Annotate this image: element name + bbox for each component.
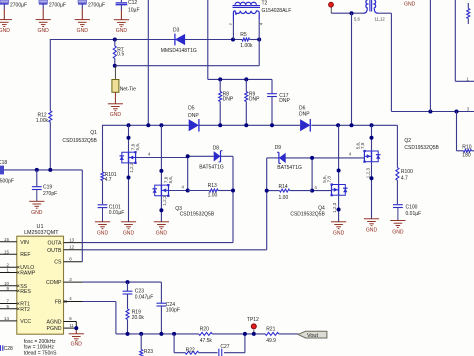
wire Q2 drain lead bbox=[371, 125, 373, 150]
label C18 bbox=[0, 160, 7, 166]
diode D9 bbox=[277, 152, 286, 163]
label fosc bbox=[24, 339, 56, 345]
ground under C12 bbox=[114, 20, 129, 34]
svg-text:GND: GND bbox=[156, 231, 168, 237]
junction gate tie bottom bbox=[186, 189, 190, 193]
svg-text:5,6: 5,6 bbox=[354, 16, 360, 21]
junction rail R8 bbox=[218, 123, 222, 127]
capacitor C101 bbox=[98, 205, 108, 222]
svg-text:1,2,3: 1,2,3 bbox=[129, 162, 134, 173]
capacitor bulk 2700uF #3 bbox=[78, 0, 87, 20]
wire OUTA bbox=[64, 242, 234, 244]
pin name UVLO bbox=[20, 265, 34, 271]
pin number 6 bbox=[69, 316, 72, 321]
svg-text:11,12: 11,12 bbox=[375, 17, 386, 22]
wire AGND PGND bbox=[64, 322, 77, 334]
capacitor C19 bbox=[32, 170, 42, 201]
wire FB bus bbox=[116, 333, 298, 335]
svg-text:GND: GND bbox=[38, 28, 50, 34]
wire OUTB bbox=[64, 249, 267, 251]
svg-text:Q2: Q2 bbox=[404, 138, 411, 144]
svg-text:16: 16 bbox=[4, 237, 9, 242]
ground under C101 bbox=[95, 222, 110, 237]
svg-text:R100: R100 bbox=[401, 169, 413, 175]
wire Q4 gate bbox=[312, 190, 331, 192]
pin name RT1 bbox=[20, 302, 30, 308]
svg-text:2700µF: 2700µF bbox=[88, 2, 105, 8]
svg-text:BAT54T1G: BAT54T1G bbox=[199, 164, 224, 170]
label D3 bbox=[173, 28, 180, 34]
svg-text:7,8: 7,8 bbox=[326, 176, 331, 183]
pin labels Q3 1,2,3 bbox=[162, 195, 167, 206]
wire drain rail bbox=[103, 125, 398, 172]
label R7 0.5 bbox=[117, 47, 124, 58]
junction R9 top bbox=[244, 77, 248, 81]
junction Q2 source pin bbox=[370, 176, 374, 180]
label R13 1.00 bbox=[208, 183, 218, 198]
pin name SS bbox=[20, 284, 27, 290]
transistor Q1 bbox=[120, 151, 137, 164]
svg-text:1.00: 1.00 bbox=[279, 195, 289, 201]
resistor top right edge (cut) bbox=[467, 3, 470, 24]
junction gate tie2 top bbox=[310, 156, 314, 160]
label C17 DNP bbox=[279, 93, 290, 104]
svg-text:G154028ALF: G154028ALF bbox=[262, 8, 292, 14]
wire Q3 source lead bbox=[160, 196, 162, 222]
svg-text:49.9: 49.9 bbox=[266, 338, 276, 344]
transformer T1 (top right, cut) bbox=[364, 0, 378, 13]
label R12 1.00k bbox=[36, 113, 49, 124]
svg-text:VIN: VIN bbox=[20, 240, 29, 246]
svg-text:DNP: DNP bbox=[249, 96, 260, 102]
test point TP (top) bbox=[329, 2, 334, 13]
svg-text:DNP: DNP bbox=[188, 113, 199, 119]
pin number 8 bbox=[69, 256, 72, 261]
transistor Q2 bbox=[363, 150, 380, 163]
svg-text:0.01µF: 0.01µF bbox=[406, 211, 422, 217]
resistor R19 bbox=[126, 309, 129, 334]
pin labels Q1 1,2,3 bbox=[129, 162, 134, 173]
ground under Q3 bbox=[154, 222, 169, 237]
wire Q1 source lead bbox=[128, 163, 130, 221]
svg-text:D5: D5 bbox=[188, 105, 195, 111]
label G154028ALF bbox=[262, 8, 292, 14]
label C101 0.01uF bbox=[109, 205, 125, 217]
wire vertical x148 bbox=[147, 0, 149, 125]
junction rail Q3 drain bbox=[159, 123, 163, 127]
svg-text:47.5k: 47.5k bbox=[200, 338, 213, 344]
wire 11,12 lead down bbox=[391, 13, 474, 111]
pin 2 UVLO bbox=[0, 262, 19, 268]
pin 2 label T2 bbox=[229, 23, 233, 25]
wire Q1 gate bbox=[136, 157, 188, 159]
junction rail center tap bbox=[350, 123, 354, 127]
wire Q3 gate bbox=[169, 190, 188, 192]
svg-text:Net-Tie: Net-Tie bbox=[120, 87, 136, 93]
capacitor C28 (cut) bbox=[0, 345, 2, 351]
pin name CS bbox=[54, 260, 62, 266]
junction center tap bbox=[350, 11, 354, 15]
svg-text:C28: C28 bbox=[4, 346, 13, 352]
svg-text:20.0k: 20.0k bbox=[132, 315, 145, 321]
pin 10 SS bbox=[0, 281, 19, 287]
pin name PGND bbox=[47, 326, 62, 332]
pin 4 label Q1 bbox=[148, 152, 151, 157]
svg-text:MMSD4148T1G: MMSD4148T1G bbox=[161, 48, 197, 54]
pin 4 label Q2 bbox=[349, 151, 352, 156]
net-tie NT1 bbox=[112, 66, 119, 104]
resistor R23 bbox=[140, 334, 143, 356]
ground under net-tie bbox=[108, 104, 123, 118]
capacitor C100 bbox=[393, 205, 403, 221]
resistor R12 bbox=[49, 111, 52, 170]
svg-text:0.047µF: 0.047µF bbox=[135, 294, 153, 300]
svg-text:D6: D6 bbox=[299, 105, 306, 111]
svg-text:DNP: DNP bbox=[299, 112, 310, 118]
resistor R13 bbox=[188, 189, 233, 192]
svg-text:1.00: 1.00 bbox=[208, 193, 218, 199]
svg-text:VCC: VCC bbox=[20, 319, 31, 325]
svg-text:REF: REF bbox=[20, 252, 30, 258]
svg-text:GND: GND bbox=[31, 210, 43, 216]
label U1 bbox=[37, 224, 44, 230]
diode D5 DNP bbox=[189, 119, 199, 132]
svg-text:100pF: 100pF bbox=[166, 308, 180, 314]
pin 5 RT2 bbox=[0, 304, 19, 310]
svg-text:5,6,: 5,6, bbox=[356, 142, 361, 150]
label R101 4.7 bbox=[105, 172, 117, 183]
svg-text:R5: R5 bbox=[240, 32, 247, 38]
label LM25037QMT bbox=[24, 230, 59, 236]
pin name COMP bbox=[46, 280, 62, 286]
svg-text:CSD19532Q5B: CSD19532Q5B bbox=[290, 211, 325, 217]
pin name RES bbox=[20, 289, 31, 295]
label R20 47.5k bbox=[200, 327, 213, 345]
junction at Net-Tie node bbox=[113, 64, 117, 68]
svg-text:Vout: Vout bbox=[307, 333, 318, 339]
label R14 1.00 bbox=[279, 184, 289, 201]
label C27 bbox=[220, 344, 229, 350]
label Q4 bbox=[318, 205, 325, 211]
svg-text:2: 2 bbox=[229, 23, 233, 25]
diode D3 bbox=[175, 34, 185, 46]
wire Q1 drain lead bbox=[128, 125, 130, 151]
label MMSD4148T1G bbox=[161, 48, 197, 54]
wire vertical x430 bbox=[429, 0, 431, 112]
label D6 bbox=[299, 105, 310, 117]
wire R12 top vertical bbox=[49, 39, 51, 111]
svg-text:2700µF: 2700µF bbox=[49, 2, 66, 8]
svg-text:1,2,3: 1,2,3 bbox=[162, 195, 167, 206]
svg-text:CS: CS bbox=[54, 260, 62, 266]
label C100 0.01uF bbox=[406, 205, 422, 218]
svg-text:OUTA: OUTA bbox=[47, 241, 62, 247]
junction rail Q4 drain bbox=[336, 123, 340, 127]
label R100 4.7 bbox=[401, 169, 413, 182]
label Q2 bbox=[404, 138, 411, 144]
junction sec wire b bbox=[455, 110, 459, 114]
svg-text:RAMP: RAMP bbox=[20, 271, 36, 277]
svg-text:GND: GND bbox=[333, 231, 345, 237]
pin name VCC bbox=[20, 319, 31, 325]
wire CS pin stub bbox=[64, 261, 83, 263]
capacitor C17 DNP bbox=[267, 79, 277, 125]
net label Vout bbox=[298, 331, 327, 339]
svg-text:GND: GND bbox=[392, 229, 404, 235]
svg-text:C19: C19 bbox=[43, 185, 52, 191]
wire COMP to C24 bbox=[160, 282, 162, 302]
label C24 100pF bbox=[166, 302, 180, 313]
transformer T2 bbox=[233, 2, 261, 65]
label R8 DNP bbox=[223, 91, 234, 102]
label Q3 CSD19532Q5B bbox=[180, 211, 215, 217]
label D8 bbox=[213, 145, 220, 151]
svg-text:GND: GND bbox=[77, 28, 89, 34]
svg-text:tdead = 750nS: tdead = 750nS bbox=[24, 351, 57, 356]
junction at R7 top bbox=[113, 38, 117, 42]
svg-text:C100: C100 bbox=[406, 205, 418, 211]
wire FB bbox=[64, 300, 116, 334]
wire R22 C27 branch bbox=[174, 334, 245, 353]
junction OUTA riser R13 bbox=[231, 189, 235, 193]
label R9 DNP bbox=[249, 91, 260, 102]
svg-text:R13: R13 bbox=[208, 183, 217, 189]
capacitor C24 bbox=[157, 302, 167, 334]
label R23 bbox=[144, 349, 153, 355]
svg-text:TP12: TP12 bbox=[247, 317, 259, 323]
label C28 bbox=[4, 346, 13, 352]
junction COMP C23 bbox=[126, 280, 130, 284]
label D5 bbox=[188, 105, 199, 119]
label TP12 bbox=[247, 317, 259, 323]
junction gate tie top bbox=[186, 154, 190, 158]
ground under U1 bbox=[69, 334, 84, 348]
svg-text:GND: GND bbox=[71, 341, 83, 347]
svg-text:D8: D8 bbox=[213, 145, 220, 151]
svg-text:10µF: 10µF bbox=[128, 8, 140, 14]
svg-text:R21: R21 bbox=[266, 327, 275, 333]
diode D6 DNP bbox=[300, 119, 310, 132]
svg-text:5,6,: 5,6, bbox=[322, 175, 327, 183]
label R5 1.00k bbox=[240, 32, 253, 49]
junction gate tie2 bottom bbox=[310, 189, 314, 193]
resistor R100 bbox=[396, 125, 399, 204]
ground under Q4 bbox=[331, 222, 346, 237]
capacitor bulk 2700uF #2 bbox=[39, 0, 48, 20]
wire Q4 source lead bbox=[338, 196, 340, 222]
pin 4 label T2 bbox=[259, 22, 264, 25]
ground under Q1 bbox=[121, 222, 136, 237]
resistor R8 DNP bbox=[219, 79, 222, 125]
wire Q1Q3 gate tie bbox=[187, 156, 189, 190]
wire CS node bbox=[37, 169, 83, 171]
pin name REF bbox=[20, 252, 30, 258]
svg-text:1,2,3: 1,2,3 bbox=[332, 202, 337, 213]
svg-text:BAT54T1G: BAT54T1G bbox=[277, 165, 302, 171]
svg-text:C27: C27 bbox=[220, 344, 229, 350]
svg-text:180: 180 bbox=[462, 153, 471, 159]
capacitor C27 bbox=[219, 349, 222, 356]
label C23 0.047uF bbox=[135, 288, 153, 300]
pin number 3 bbox=[69, 277, 72, 282]
label C12 10uF bbox=[128, 0, 140, 14]
junction T2 right lead bbox=[257, 38, 261, 42]
label Q1 CSD19532Q5B bbox=[62, 138, 97, 144]
resistor R7 bbox=[113, 40, 116, 66]
junction R8 top bbox=[218, 77, 222, 81]
junction R12 bottom bbox=[48, 168, 52, 172]
capacitor C23 bbox=[123, 282, 133, 309]
ground under C100 bbox=[390, 221, 405, 236]
label C19 270pF bbox=[43, 185, 57, 198]
pin name RT2 bbox=[20, 307, 30, 313]
svg-text:RT2: RT2 bbox=[20, 307, 30, 313]
label 2700uF #3 bbox=[88, 2, 105, 8]
wire vertical x207.8 to DNP bus bbox=[208, 0, 272, 79]
svg-text:R14: R14 bbox=[279, 184, 288, 190]
pin labels Q2 1,2,3 bbox=[365, 168, 370, 179]
svg-text:5,6,: 5,6, bbox=[168, 176, 173, 184]
svg-text:GND: GND bbox=[97, 231, 109, 237]
pin 7 RT1 bbox=[0, 299, 19, 305]
svg-text:GND: GND bbox=[366, 228, 378, 234]
resistor R5 bbox=[242, 38, 250, 41]
resistor R22 bbox=[185, 351, 199, 354]
pin number 12 bbox=[69, 245, 74, 250]
svg-text:15: 15 bbox=[4, 249, 9, 254]
pin labels Q4 5,6 7,8 bbox=[322, 175, 331, 183]
svg-text:GND: GND bbox=[116, 28, 128, 34]
svg-text:T2: T2 bbox=[262, 0, 268, 6]
label R102 180 bbox=[462, 144, 471, 158]
svg-text:D3: D3 bbox=[173, 28, 180, 34]
junction bus C23R19 bbox=[126, 332, 130, 336]
svg-text:7,8: 7,8 bbox=[360, 142, 365, 149]
resistor R20 bbox=[199, 332, 213, 335]
transistor Q4 bbox=[331, 183, 348, 196]
junction OUTB riser R14 bbox=[265, 189, 269, 193]
svg-text:R22: R22 bbox=[186, 348, 195, 354]
pin labels Q4 1,2,3 bbox=[332, 202, 337, 213]
pin name FB bbox=[55, 300, 62, 306]
pin 1 RAMP bbox=[0, 268, 19, 274]
junction C19 top bbox=[35, 168, 39, 172]
label T2 bbox=[262, 0, 268, 6]
junction Q4 drain pin bbox=[337, 169, 341, 173]
pin name VIN bbox=[20, 240, 29, 246]
wire transformer center tap bbox=[331, 12, 391, 14]
svg-text:LM25037QMT: LM25037QMT bbox=[24, 230, 59, 236]
pin name RAMP bbox=[20, 271, 36, 277]
svg-text:R20: R20 bbox=[200, 327, 209, 333]
junction Q3 drain pin bbox=[159, 169, 163, 173]
pin 15 REF bbox=[0, 249, 17, 254]
junction rail R9 bbox=[244, 123, 248, 127]
wire Q2Q4 gate tie bbox=[311, 158, 313, 191]
svg-text:4.7: 4.7 bbox=[105, 177, 112, 183]
wire D8 net bbox=[188, 155, 214, 157]
wire D3 horizontal net bbox=[50, 39, 259, 41]
svg-text:AGND: AGND bbox=[47, 320, 62, 326]
svg-text:12: 12 bbox=[69, 245, 74, 250]
wire OUTA riser bbox=[220, 156, 233, 242]
junction bus C24 bbox=[159, 332, 163, 336]
pin labels Q2 5,6 7,8 bbox=[356, 142, 365, 150]
wire D9 net bbox=[286, 157, 313, 159]
svg-text:11: 11 bbox=[69, 323, 74, 328]
ground under C19 bbox=[29, 201, 44, 216]
label tdead bbox=[24, 351, 57, 356]
label D9 bbox=[275, 145, 282, 151]
label D9 BAT54T1G bbox=[277, 165, 302, 171]
wire pin1 right edge bbox=[455, 0, 474, 81]
svg-text:DNP: DNP bbox=[279, 98, 290, 104]
svg-text:C18: C18 bbox=[0, 160, 7, 166]
junction rail Q1 drain bbox=[127, 123, 131, 127]
junction bus TP12 bbox=[252, 332, 256, 336]
pin 14 VCC bbox=[0, 316, 17, 321]
pin 5,6 label bbox=[354, 16, 360, 21]
svg-text:COMP: COMP bbox=[46, 280, 62, 286]
junction sec wire a bbox=[428, 110, 432, 114]
svg-text:14: 14 bbox=[4, 316, 9, 321]
label 2700uF #1 bbox=[10, 2, 27, 8]
svg-text:13: 13 bbox=[69, 237, 74, 242]
pin number 11 bbox=[69, 323, 74, 328]
svg-text:1500pF: 1500pF bbox=[0, 178, 14, 184]
svg-text:R23: R23 bbox=[144, 349, 153, 355]
svg-text:0.01µF: 0.01µF bbox=[109, 210, 125, 216]
junction bus branch right bbox=[243, 332, 247, 336]
svg-text:1,2,3: 1,2,3 bbox=[365, 168, 370, 179]
pin labels Q3 7,8 5,6 bbox=[164, 176, 173, 184]
wire CS riser bbox=[81, 170, 83, 262]
svg-text:Q1: Q1 bbox=[90, 130, 97, 136]
label Q2 CSD19532Q5B bbox=[404, 145, 439, 151]
wire Net-Tie node horizontal bbox=[115, 65, 259, 67]
junction PGND bbox=[74, 326, 78, 330]
pin 4 label Q4 bbox=[314, 185, 317, 190]
pin 4 label Q3 bbox=[182, 185, 185, 190]
label R21 49.9 bbox=[266, 327, 276, 345]
wire OUTB riser bbox=[267, 158, 279, 250]
svg-text:RES: RES bbox=[20, 289, 31, 295]
svg-text:CSD19532Q5B: CSD19532Q5B bbox=[404, 145, 439, 151]
junction rail Q2 drain bbox=[370, 123, 374, 127]
IC U1 body bbox=[17, 236, 64, 334]
junction Q2 drain pin bbox=[370, 136, 374, 140]
svg-text:OUTB: OUTB bbox=[47, 248, 62, 254]
label Q3 bbox=[175, 206, 182, 212]
junction rail C17 bbox=[270, 123, 274, 127]
svg-text:DNP: DNP bbox=[223, 96, 234, 102]
label 2700uF #2 bbox=[49, 2, 66, 8]
junction Q1 source pin bbox=[127, 176, 131, 180]
svg-text:1.00k: 1.00k bbox=[240, 43, 253, 49]
resistor R102 180 bbox=[457, 112, 474, 153]
capacitor C18 (cut) bbox=[0, 166, 37, 175]
transistor Q3 bbox=[152, 184, 169, 197]
wire Q2 source lead bbox=[371, 162, 373, 219]
label fsw bbox=[24, 345, 55, 351]
label Q4 CSD19532Q5B bbox=[290, 211, 325, 217]
diode D8 bbox=[214, 151, 223, 162]
label R19 20.0k bbox=[132, 310, 145, 321]
svg-text:1.00k: 1.00k bbox=[36, 118, 49, 124]
label 1500pF bbox=[0, 178, 14, 184]
pin 1 label right bbox=[467, 77, 470, 82]
ground under bulk cap #1 bbox=[0, 20, 12, 34]
